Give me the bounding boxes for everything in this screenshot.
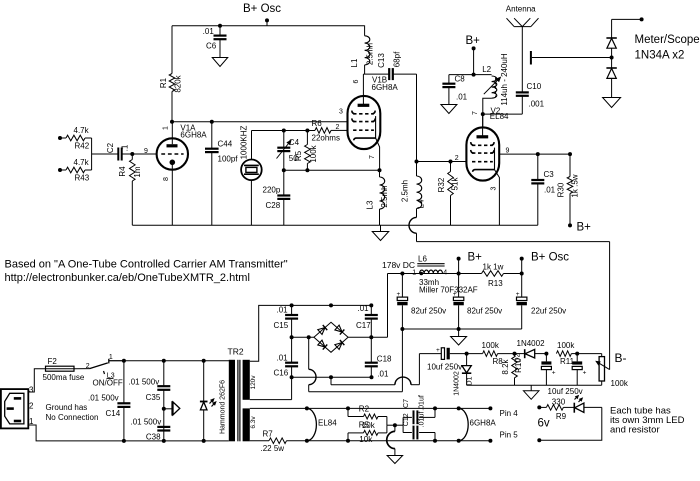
- svg-text:Meter/Scope: Meter/Scope: [635, 34, 700, 46]
- bridge diode (bottom-right): [335, 340, 344, 349]
- svg-text:.01: .01: [277, 306, 289, 315]
- heater 6GH8A: [459, 408, 497, 440]
- wire line (hot) to fuse: [28, 369, 45, 392]
- capacitor C15 .01: [274, 305, 299, 337]
- svg-text:114uh - 240uH: 114uh - 240uH: [500, 53, 509, 106]
- capacitive pickup bar: [531, 51, 614, 65]
- wire bias supply tap (hop over ground): [331, 354, 441, 385]
- svg-text:6GH8A: 6GH8A: [470, 419, 497, 428]
- svg-text:.01: .01: [377, 370, 389, 379]
- capacitor C7 .01uf: [395, 395, 435, 425]
- capacitor C14 .01 500v: [88, 361, 130, 441]
- pin 3 V1B: [339, 109, 343, 116]
- svg-text:C7: C7: [403, 399, 410, 408]
- label Pin 4 / Pin 5: [500, 409, 519, 440]
- svg-text:100k: 100k: [482, 341, 500, 350]
- svg-text:Antenna: Antenna: [506, 5, 536, 14]
- heater EL84: [307, 408, 337, 440]
- wire oscillator cathode net: [282, 168, 382, 172]
- svg-text:L1: L1: [350, 58, 359, 67]
- capacitor C10 .001: [516, 27, 545, 115]
- inductor L6 33mh Miller 70F332AF: [412, 255, 478, 295]
- svg-text:D2: D2: [515, 353, 522, 362]
- wire hop to ground (heater balance): [387, 425, 395, 455]
- svg-text:10k: 10k: [359, 435, 373, 444]
- svg-text:3: 3: [491, 186, 498, 190]
- svg-text:EL84: EL84: [490, 112, 509, 121]
- ground (heater balance): [387, 456, 403, 464]
- svg-text:Pin 4: Pin 4: [500, 409, 519, 418]
- wire AC top rail: [109, 359, 232, 363]
- ground (C8): [441, 105, 457, 114]
- svg-text:1: 1: [109, 354, 113, 361]
- svg-text:L3: L3: [366, 200, 375, 209]
- svg-text:330: 330: [552, 398, 566, 407]
- svg-text:R43: R43: [75, 174, 90, 183]
- wire top plate supply bus: [172, 25, 364, 27]
- svg-text:6v: 6v: [538, 418, 550, 430]
- label V1A: [180, 124, 207, 140]
- title text: [5, 258, 288, 284]
- capacitor 10uf 250v (bias mid): [541, 352, 555, 386]
- svg-text:220p: 220p: [263, 186, 281, 195]
- resistor R5 10k (bottom): [348, 420, 387, 443]
- svg-text:4.7k: 4.7k: [74, 126, 90, 135]
- svg-text:C14: C14: [106, 409, 121, 418]
- pin 9 V2: [506, 148, 510, 155]
- net B+ (main): [457, 251, 483, 273]
- potentiometer 100k (bias adjust): [577, 354, 629, 388]
- wire R2/R5 junction: [387, 423, 397, 427]
- svg-text:R4: R4: [118, 166, 127, 177]
- wire bridge AC- tap: [290, 335, 314, 339]
- diode 1N34A (lower): [606, 48, 616, 97]
- resistor R10 8.2k: [501, 352, 523, 386]
- resistor R13 1k 1w: [482, 263, 504, 288]
- ground (bias divider): [523, 385, 539, 399]
- svg-text:C12: C12: [403, 413, 410, 426]
- svg-text:R5: R5: [294, 150, 303, 161]
- svg-text:6GH8A: 6GH8A: [372, 83, 399, 92]
- net B+ Osc (top): [243, 3, 281, 26]
- svg-text:C3: C3: [544, 170, 555, 179]
- svg-text:1: 1: [162, 126, 169, 130]
- svg-text:3: 3: [29, 386, 34, 395]
- wire HV secondary top to bridge AC1: [250, 305, 292, 361]
- svg-text:.01: .01: [277, 354, 289, 363]
- svg-text:C38: C38: [146, 433, 161, 442]
- svg-text:22ohms: 22ohms: [312, 133, 340, 142]
- pentode V2 EL84: [466, 114, 499, 225]
- svg-text:+: +: [453, 291, 457, 298]
- variable inductor L2 114uh-240uH: [475, 53, 509, 114]
- wire bias bottom rail: [467, 384, 602, 386]
- svg-text:4.7k: 4.7k: [74, 158, 90, 167]
- svg-text:TR2: TR2: [228, 346, 244, 356]
- capacitor C13 68pf: [377, 51, 416, 162]
- svg-text:1: 1: [412, 269, 416, 276]
- svg-text:2: 2: [455, 155, 459, 162]
- svg-text:10k: 10k: [362, 421, 376, 430]
- bridge diode (top-right): [335, 325, 344, 334]
- capacitor C2 .1: [106, 142, 132, 160]
- capacitor 10uf 250v (bias input): [427, 347, 467, 371]
- svg-text:100pf: 100pf: [218, 155, 239, 164]
- capacitor C38 .01 500v: [131, 417, 171, 441]
- wire meter tap: [612, 17, 644, 21]
- resistor R6 22ohms: [312, 119, 348, 142]
- wire ground bus (oscillator): [132, 224, 538, 226]
- wire 178v DC rail: [388, 272, 524, 276]
- svg-text:7: 7: [369, 155, 376, 159]
- pentode V1B 6GH8A: [348, 74, 381, 170]
- capacitor C12 .01uf: [403, 412, 435, 441]
- svg-text:1N4002: 1N4002: [517, 339, 546, 348]
- svg-text:C2: C2: [106, 142, 115, 153]
- capacitor C35 .01 500v: [129, 361, 171, 441]
- svg-text:100k: 100k: [611, 379, 629, 388]
- svg-text:C10: C10: [527, 82, 542, 91]
- resistor R11 100k: [556, 341, 577, 366]
- svg-text:F2: F2: [48, 357, 58, 366]
- svg-text:B+ Osc: B+ Osc: [531, 251, 569, 263]
- svg-text:1N34A x2: 1N34A x2: [635, 49, 685, 61]
- svg-text:Pin 5: Pin 5: [500, 431, 519, 440]
- svg-text:.1: .1: [121, 144, 130, 151]
- net B+ Osc (supply): [520, 251, 570, 273]
- svg-text:6: 6: [353, 79, 360, 83]
- svg-text:C15: C15: [274, 321, 289, 330]
- ground (meter diodes): [603, 98, 621, 108]
- net B+ (RF amp): [466, 35, 481, 77]
- svg-text:.01: .01: [203, 27, 215, 36]
- resistor R32 51k: [437, 162, 460, 226]
- svg-text:.22 5w: .22 5w: [261, 444, 285, 453]
- svg-text:8.2k: 8.2k: [501, 358, 510, 374]
- svg-text:2.5mh: 2.5mh: [365, 43, 374, 65]
- svg-text:C17: C17: [356, 321, 371, 330]
- svg-text:1N4002: 1N4002: [454, 371, 461, 396]
- svg-text:500ma fuse: 500ma fuse: [43, 373, 85, 382]
- svg-text:.001: .001: [529, 100, 545, 109]
- LED tube indicator: [574, 395, 602, 412]
- capacitor C8 .01: [442, 75, 474, 105]
- transformer TR2 Hammond 262F6: [219, 346, 257, 441]
- label V1B: [372, 76, 399, 92]
- svg-text:1m: 1m: [133, 166, 142, 177]
- svg-text:.01 500v: .01 500v: [88, 393, 119, 402]
- svg-text:C44: C44: [218, 140, 233, 149]
- svg-text:6GH8A: 6GH8A: [180, 130, 207, 139]
- svg-text:100k: 100k: [557, 341, 575, 350]
- svg-text:.01uf: .01uf: [419, 412, 426, 428]
- arrow symbol (line filter): [162, 401, 180, 415]
- svg-text:178v DC: 178v DC: [382, 260, 415, 270]
- label 178v DC: [382, 260, 415, 270]
- svg-text:22uf 250v: 22uf 250v: [531, 307, 566, 316]
- svg-text:82uf 250v: 82uf 250v: [411, 307, 446, 316]
- LED power indicator (AC): [200, 361, 216, 441]
- resistor R7 .22 5w: [250, 430, 287, 453]
- svg-text:9: 9: [506, 148, 510, 155]
- svg-text:C28: C28: [266, 201, 281, 210]
- svg-text:EL84: EL84: [318, 419, 337, 428]
- svg-text:+: +: [552, 370, 556, 377]
- svg-text:2: 2: [336, 124, 340, 131]
- svg-text:.01 500v: .01 500v: [129, 378, 160, 387]
- svg-text:2: 2: [86, 363, 90, 370]
- svg-text:Hammond 262F6: Hammond 262F6: [219, 380, 226, 434]
- wire V2 screen node: [499, 152, 572, 156]
- wire V2 plate node: [481, 112, 523, 127]
- svg-text:C8: C8: [455, 75, 466, 84]
- svg-text:C4: C4: [289, 138, 300, 147]
- net 6v LED circuit: [537, 405, 550, 442]
- pin 7 V2: [472, 111, 479, 115]
- triode V1A 6GH8A: [157, 122, 188, 225]
- svg-text:8: 8: [163, 177, 170, 181]
- capacitor C17 .01: [356, 304, 378, 337]
- pin 2 V2: [455, 155, 459, 162]
- svg-text:R9: R9: [556, 412, 567, 421]
- wire bridge AC1 rail: [290, 303, 374, 307]
- wire heater top rail: [250, 406, 493, 410]
- resistor R43 4.7k: [58, 158, 92, 183]
- inductor L3 2.5mh: [366, 170, 390, 225]
- wire bridge left to ground (hop): [309, 337, 403, 391]
- svg-text:Based on "A One-Tube Controlle: Based on "A One-Tube Controlled Carrier …: [5, 258, 288, 270]
- ground (main filter): [451, 329, 467, 345]
- svg-text:B+: B+: [466, 35, 481, 47]
- svg-text:+: +: [516, 291, 520, 298]
- svg-text:C6: C6: [206, 42, 217, 51]
- net B+ (screen feed): [568, 222, 591, 234]
- svg-text:+: +: [583, 370, 587, 377]
- wire 6v loop return: [539, 407, 602, 440]
- svg-text:and resistor: and resistor: [610, 425, 660, 436]
- diode 1N34A (upper): [606, 19, 616, 48]
- pin 8 V1A: [163, 177, 170, 181]
- svg-text:1000KHZ: 1000KHZ: [239, 125, 248, 159]
- variable capacitor C4: [277, 131, 300, 171]
- svg-text:82uf 250v: 82uf 250v: [467, 307, 502, 316]
- svg-text:.01uf: .01uf: [419, 395, 426, 411]
- svg-text:820k: 820k: [174, 74, 183, 92]
- wire input join: [92, 138, 118, 170]
- svg-text:Miller 70F332AF: Miller 70F332AF: [419, 286, 478, 295]
- resistor R30 1k .5w: [557, 154, 580, 225]
- pin 1 V1A: [162, 126, 169, 130]
- capacitor C3 .01: [531, 154, 555, 225]
- svg-text:No Connection: No Connection: [46, 413, 99, 422]
- svg-text:3: 3: [339, 109, 343, 116]
- wire heater bottom rail: [287, 439, 493, 443]
- diode D2 1N4002: [515, 339, 547, 358]
- pin 3 V2: [491, 186, 498, 190]
- inductor L1 2.5mh: [350, 26, 389, 74]
- svg-text:http://electronbunker.ca/eb/On: http://electronbunker.ca/eb/OneTubeXMTR_…: [5, 272, 250, 284]
- capacitor 82uf 250v (first): [397, 274, 447, 392]
- svg-text:100k: 100k: [309, 144, 318, 162]
- resistor R5 100k: [294, 131, 318, 171]
- label LED note: [610, 405, 685, 435]
- resistor R9 330: [546, 398, 574, 421]
- wire DC ground rail: [400, 327, 521, 331]
- svg-text:C13: C13: [377, 53, 386, 68]
- svg-text:.01: .01: [544, 186, 556, 195]
- svg-text:.01: .01: [456, 93, 468, 102]
- svg-text:68pf: 68pf: [392, 51, 401, 67]
- svg-text:10uf 250v: 10uf 250v: [548, 387, 583, 396]
- resistor R1 820k: [159, 26, 183, 122]
- resistor R4 1m: [118, 154, 142, 225]
- svg-text:120v: 120v: [250, 375, 257, 390]
- svg-text:D1: D1: [466, 376, 473, 385]
- svg-text:L2: L2: [482, 65, 491, 74]
- bridge rectifier diamond: [314, 322, 348, 352]
- IEC power inlet connector: [1, 389, 28, 428]
- svg-text:L6: L6: [418, 255, 427, 264]
- pin 6 V1B: [353, 79, 360, 83]
- resistor R8 100k: [467, 341, 515, 366]
- pin 2 V1B: [336, 124, 340, 131]
- wire V1A plate bus to V1B grid: [170, 120, 348, 124]
- svg-text:R32: R32: [437, 177, 446, 192]
- svg-text:2.5mh: 2.5mh: [400, 180, 409, 202]
- svg-text:6.3v: 6.3v: [250, 416, 257, 429]
- svg-text:C16: C16: [274, 369, 289, 378]
- svg-text:B+ Osc: B+ Osc: [243, 3, 281, 15]
- svg-text:R2: R2: [359, 405, 370, 414]
- svg-text:10uf 250v: 10uf 250v: [427, 362, 462, 371]
- capacitor C28 220p: [263, 170, 291, 225]
- svg-text:R30: R30: [557, 182, 566, 197]
- svg-text:+: +: [397, 291, 401, 298]
- wire bridge AC2 net: [290, 375, 374, 379]
- antenna: [506, 5, 539, 27]
- svg-text:+: +: [436, 347, 440, 354]
- svg-text:Ground has: Ground has: [46, 403, 88, 412]
- capacitor 22uf 250v: [516, 274, 566, 330]
- pin 9 V1A: [144, 148, 148, 155]
- capacitor C16 .01: [274, 337, 299, 377]
- wire line (neutral) bottom rail: [28, 425, 229, 443]
- svg-text:.01 500v: .01 500v: [131, 417, 162, 426]
- capacitor C44 100pf: [205, 122, 238, 225]
- label Meter/Scope 1N34A x2: [635, 34, 700, 61]
- resistor R42 4.7k: [58, 126, 92, 151]
- svg-text:7: 7: [472, 111, 479, 115]
- svg-text:C18: C18: [377, 355, 392, 364]
- svg-text:B-: B-: [615, 351, 627, 365]
- capacitor 82uf 250v (second): [453, 274, 502, 330]
- svg-text:R7: R7: [263, 430, 274, 439]
- svg-text:B+: B+: [577, 222, 592, 234]
- pin labels IEC: [29, 386, 34, 426]
- resistor R2 (top): [348, 405, 387, 426]
- fuse F2 500ma: [43, 357, 85, 382]
- ground (C6): [212, 58, 228, 67]
- bridge diode (bottom-left): [318, 340, 327, 349]
- svg-text:R1: R1: [159, 77, 168, 88]
- net B-: [615, 351, 627, 365]
- ground (oscillator bus): [372, 225, 389, 240]
- capacitor C6: [203, 24, 227, 57]
- capacitor C18 .01: [365, 337, 392, 378]
- svg-text:ON/OFF: ON/OFF: [93, 379, 123, 388]
- wire HV secondary bottom: [250, 377, 292, 399]
- svg-text:R42: R42: [75, 142, 90, 151]
- wire bridge DC+ to filter: [348, 274, 387, 340]
- svg-text:2.5mh: 2.5mh: [380, 185, 389, 207]
- svg-text:51k: 51k: [451, 177, 460, 191]
- svg-text:1k .5w: 1k .5w: [571, 174, 580, 197]
- svg-text:1k 1w: 1k 1w: [483, 263, 504, 272]
- node grid V1A: [130, 152, 156, 156]
- wire oscillator grid net: [252, 129, 316, 133]
- inductor L4 2.5mh: [400, 162, 425, 218]
- capacitor 10uf 250v (bias out): [548, 352, 587, 396]
- svg-text:4: 4: [443, 269, 447, 276]
- wire hop (L4 over ground bus): [409, 217, 417, 241]
- diode D1 1N4002: [454, 352, 474, 396]
- svg-text:R6: R6: [312, 119, 323, 128]
- svg-text:2: 2: [29, 402, 34, 411]
- bridge diode (top-left): [318, 325, 327, 334]
- crystal 1000KHZ: [239, 125, 261, 225]
- label ground note: [46, 403, 99, 422]
- svg-text:C35: C35: [146, 393, 161, 402]
- svg-text:L4: L4: [417, 199, 426, 208]
- wire B- feed from oscillator cathode: [417, 242, 610, 370]
- label V2: [490, 106, 509, 121]
- svg-text:R13: R13: [488, 279, 503, 288]
- svg-text:.01: .01: [358, 304, 370, 313]
- svg-text:B+: B+: [468, 251, 483, 263]
- wire V2 grid net: [415, 160, 467, 164]
- switch ON/OFF: [74, 354, 124, 388]
- pin 7 V1B: [369, 155, 376, 159]
